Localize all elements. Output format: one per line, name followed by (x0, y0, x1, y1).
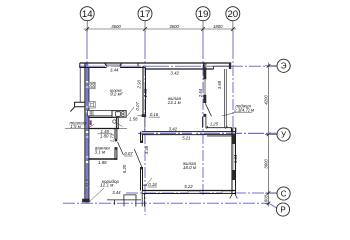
svg-text:Э: Э (281, 62, 287, 71)
svg-text:0.16: 0.16 (150, 112, 159, 117)
svg-text:0.18: 0.18 (148, 182, 157, 187)
svg-text:1.5 м: 1.5 м (70, 124, 81, 129)
svg-text:4200: 4200 (263, 95, 268, 105)
svg-text:1800: 1800 (213, 24, 223, 29)
svg-text:5.21: 5.21 (182, 135, 191, 140)
svg-text:600: 600 (263, 194, 268, 202)
svg-text:3.42: 3.42 (171, 70, 180, 75)
svg-text:18.0 м: 18.0 м (183, 165, 196, 170)
svg-text:2.93: 2.93 (136, 80, 141, 90)
svg-text:0.07: 0.07 (135, 102, 140, 111)
svg-text:13.1 м: 13.1 м (168, 100, 181, 105)
svg-text:19: 19 (198, 9, 209, 20)
svg-text:2.37: 2.37 (85, 179, 90, 189)
svg-text:0.07: 0.07 (124, 151, 133, 156)
svg-text:2.3(4.7) м: 2.3(4.7) м (233, 107, 254, 112)
svg-text:У: У (281, 130, 287, 139)
svg-text:20: 20 (227, 9, 238, 20)
svg-text:3.44: 3.44 (233, 154, 238, 163)
svg-text:3.45: 3.45 (144, 145, 149, 154)
svg-text:1.58: 1.58 (129, 117, 138, 122)
svg-text:3600: 3600 (111, 24, 121, 29)
svg-text:2.83: 2.83 (143, 88, 148, 98)
svg-text:1.73: 1.73 (110, 133, 115, 142)
svg-text:3.1 м: 3.1 м (95, 149, 106, 154)
svg-text:3.44: 3.44 (112, 190, 121, 195)
svg-text:Р: Р (280, 205, 285, 214)
svg-text:2.84: 2.84 (198, 88, 203, 98)
svg-text:5.20: 5.20 (122, 164, 127, 173)
svg-text:17: 17 (140, 9, 151, 20)
svg-text:3600: 3600 (263, 159, 268, 169)
svg-text:3.42: 3.42 (169, 127, 178, 132)
svg-text:3600: 3600 (169, 24, 179, 29)
svg-text:9.2 м²: 9.2 м² (110, 92, 123, 97)
svg-text:С: С (281, 189, 287, 198)
svg-text:1.25: 1.25 (210, 122, 219, 127)
svg-text:3.69: 3.69 (217, 80, 222, 89)
svg-text:5.22: 5.22 (184, 184, 193, 189)
svg-text:14: 14 (82, 9, 93, 20)
svg-text:1.88: 1.88 (98, 160, 107, 165)
svg-text:1.80: 1.80 (100, 133, 109, 138)
svg-text:12.1 м: 12.1 м (100, 183, 113, 188)
svg-text:3.44: 3.44 (110, 68, 119, 73)
